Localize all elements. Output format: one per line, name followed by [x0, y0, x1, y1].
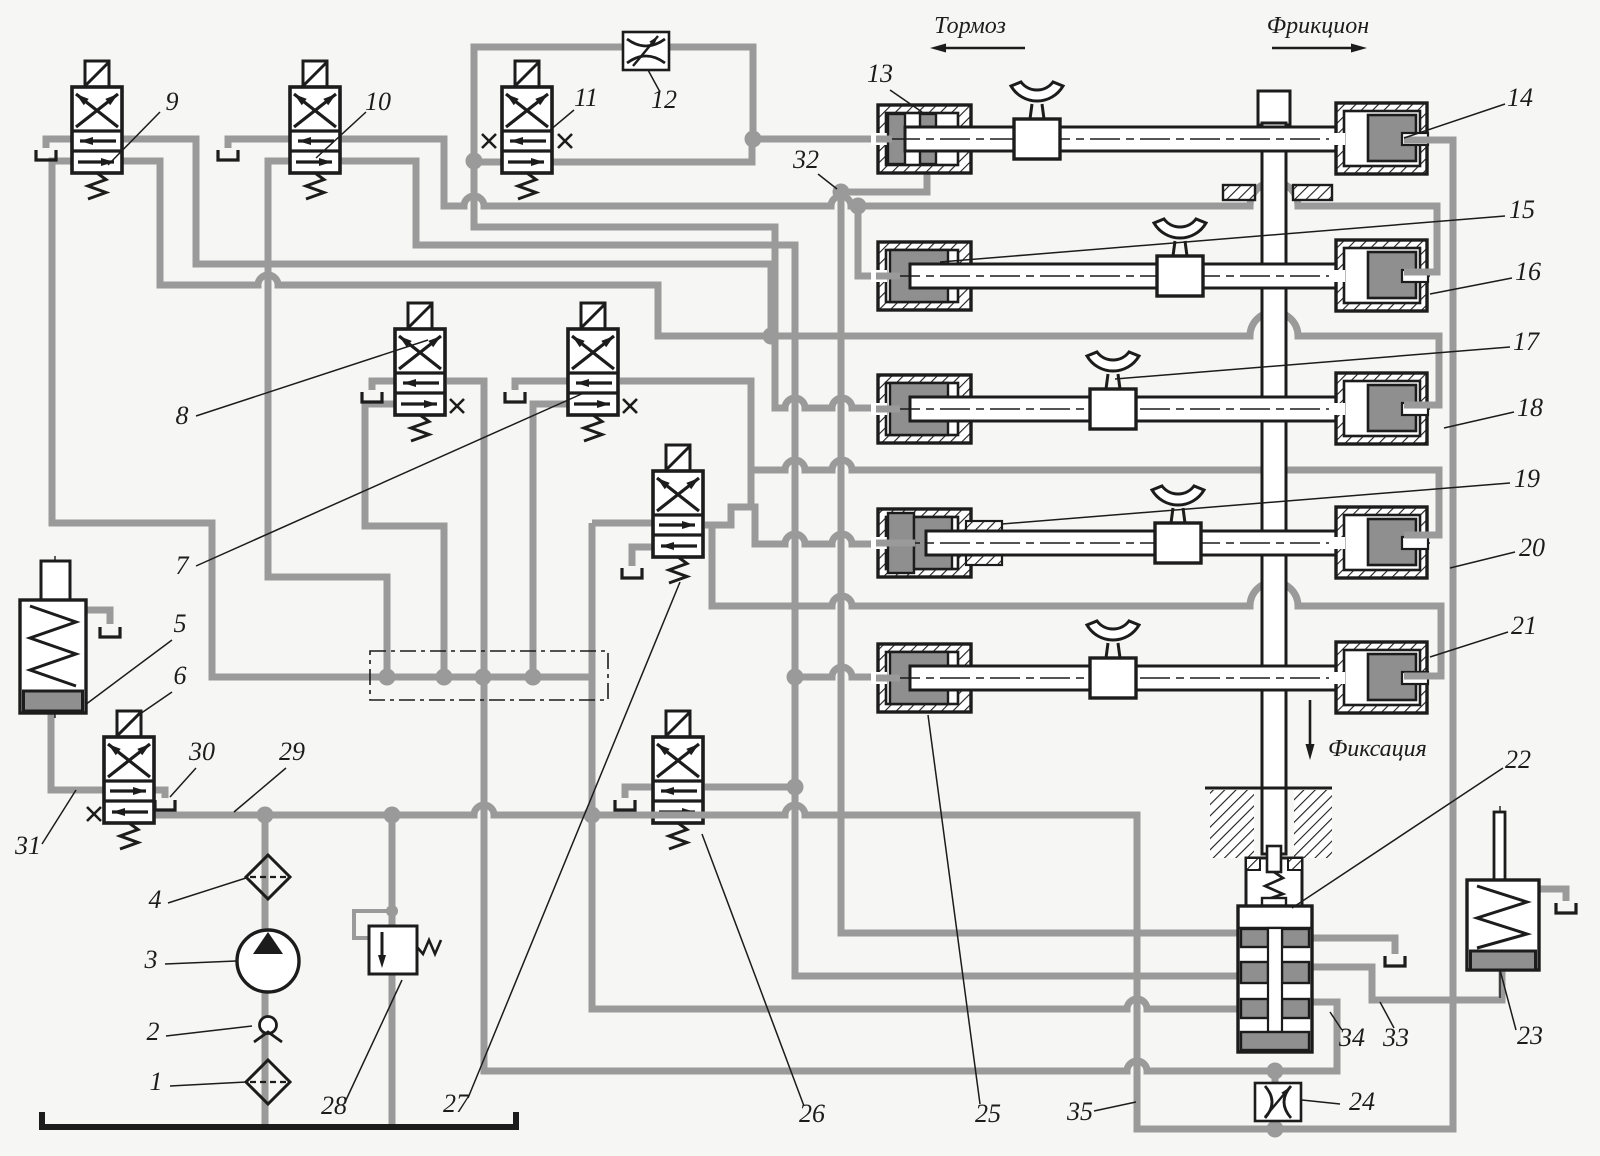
svg-text:22: 22: [1505, 745, 1531, 774]
wire 32 row1 cylinder drain to node 841,192: [841, 171, 927, 192]
svg-text:4: 4: [149, 885, 162, 914]
wire valve10 lower port via x795 down to piston-stack band2: [340, 161, 1240, 976]
junction node at 841,192: [833, 184, 850, 201]
svg-text:3: 3: [144, 945, 158, 974]
svg-text:17: 17: [1513, 327, 1540, 356]
junction node at 771,336: [763, 328, 780, 345]
wire x841 down to line y933 to stack band1 left: [841, 192, 1240, 933]
brake cylinder 15: [871, 242, 971, 310]
tank reservoir: [42, 1112, 516, 1127]
valve 9 solenoid directional valve: [72, 61, 122, 199]
svg-text:9: 9: [166, 87, 179, 116]
valve 8 solenoid directional valve: [395, 303, 464, 441]
tank symbol for valve 9: [36, 150, 56, 160]
filter 1: [246, 1060, 290, 1104]
collector manifold outline: [370, 651, 608, 700]
brake cylinder 25 row5 piston: [890, 652, 948, 704]
label 3: [144, 945, 237, 974]
svg-text:33: 33: [1382, 1023, 1409, 1052]
wire accumulator 23 tank line: [1539, 889, 1566, 901]
label 19: [1002, 464, 1540, 524]
label 18: [1444, 393, 1543, 428]
svg-text:Фрикцион: Фрикцион: [1267, 13, 1370, 39]
brake cylinder 19 piston: [888, 513, 1002, 573]
junction node at 265,815: [257, 807, 274, 824]
wire valve8 right port down x484 to line y1071 to stack band3 right: [447, 381, 1337, 1071]
wire valve10 upper port to long line y206 to row2 right piston: [340, 139, 1437, 272]
accumulator 23: [1467, 806, 1539, 998]
label 13: [867, 59, 922, 112]
filter 4: [246, 855, 290, 899]
brake cylinder 15 rod: [890, 264, 1430, 288]
brake cylinder 13 piston: [888, 114, 936, 164]
wire relief valve branch x392: [389, 815, 396, 1124]
wire stack band1 right to tank: [1308, 938, 1395, 954]
label 23: [1500, 970, 1543, 1050]
wire valve9 upper port to y264 then down x771: [122, 139, 771, 336]
tank symbol for valve 27: [622, 568, 642, 578]
brake cylinder 17: [871, 375, 971, 443]
brake cylinder 15 fork: [1154, 219, 1206, 296]
wire valve27 tank stub: [632, 547, 653, 566]
wire manifold to valve27 left port: [592, 520, 652, 527]
junction node manifold 387,677: [379, 669, 396, 686]
wire valve27 port down x712 to line y606 to row5 right piston: [712, 525, 1441, 676]
wire main line through valve 26: [651, 812, 707, 819]
svg-text:15: 15: [1509, 195, 1535, 224]
wire stub into row2 right piston: [1404, 269, 1437, 276]
friction cylinder 14: [1329, 103, 1428, 174]
label 15: [940, 195, 1535, 262]
svg-text:7: 7: [176, 551, 190, 580]
tank symbol for accumulator 23: [1556, 903, 1576, 913]
label 16: [1430, 257, 1541, 294]
label 17: [1115, 327, 1540, 379]
text Тормоз with arrow: [930, 13, 1025, 53]
label 29: [234, 737, 305, 812]
junction node at 392,911: [386, 905, 398, 917]
brake cylinder 25 row5: [871, 644, 971, 712]
label 32: [792, 145, 837, 189]
junction node at 474,162: [466, 153, 483, 170]
svg-text:1: 1: [150, 1067, 163, 1096]
wire stub into row3 left: [876, 406, 900, 413]
check valve 2: [254, 1017, 282, 1043]
svg-text:25: 25: [975, 1099, 1001, 1128]
label 33: [1380, 1002, 1409, 1052]
support ground row1: [1223, 185, 1332, 200]
tank symbol for piston stack drain: [1385, 956, 1405, 966]
svg-text:31: 31: [14, 831, 41, 860]
wire branch to row4 left feed: [705, 507, 884, 544]
throttle valve 12: [623, 32, 669, 70]
svg-text:5: 5: [174, 609, 187, 638]
svg-text:28: 28: [321, 1091, 347, 1120]
brake cylinder 17 rod: [890, 397, 1430, 421]
wire valve10 tank stub: [228, 139, 290, 148]
wire valve9 drain to collector manifold: [52, 161, 592, 677]
svg-text:21: 21: [1511, 611, 1537, 640]
label 7: [176, 392, 587, 580]
label 24: [1302, 1087, 1375, 1116]
wire row5 left feed corridor: [795, 667, 884, 677]
valve 7 solenoid directional valve: [568, 303, 637, 441]
valve 27 solenoid directional valve: [653, 445, 703, 583]
junction node manifold 483,677: [475, 669, 492, 686]
junction node manifold 533,677: [525, 669, 542, 686]
wire valve9 lower port to long line y336 to row3 right piston: [122, 161, 1439, 405]
label 25: [928, 715, 1001, 1128]
label 31: [14, 790, 76, 860]
junction node at 858,206: [850, 198, 867, 215]
svg-text:14: 14: [1507, 83, 1533, 112]
wire stub into row4 left: [876, 540, 915, 547]
wire stub into row2 left: [876, 273, 900, 280]
brake cylinder 19 rod: [890, 531, 1430, 555]
wire 33 stack band2 right to accumulator 23: [1308, 966, 1502, 1000]
wire accumulator 5 tank line: [84, 610, 110, 624]
svg-text:24: 24: [1349, 1087, 1375, 1116]
label 5: [85, 609, 187, 705]
svg-text:30: 30: [188, 737, 215, 766]
pump 3: [237, 930, 299, 992]
junction node at 795,787: [787, 779, 804, 796]
label 1: [150, 1067, 247, 1096]
wire valve9 tank stub: [46, 139, 72, 148]
svg-text:11: 11: [574, 83, 598, 112]
wire valve6 tank stub: [154, 790, 165, 798]
svg-text:8: 8: [176, 401, 189, 430]
wire throttle 24 branch upper: [1272, 1071, 1279, 1086]
friction cylinder 20: [1329, 507, 1428, 578]
tank symbol for valve 26: [615, 800, 635, 810]
wire valve10 drain to manifold: [268, 161, 387, 677]
svg-text:12: 12: [651, 85, 677, 114]
wire valve8 drain to manifold: [365, 404, 444, 677]
svg-text:2: 2: [147, 1017, 160, 1046]
relief valve 28: [369, 926, 441, 974]
label 30: [170, 737, 215, 797]
svg-text:18: 18: [1517, 393, 1543, 422]
wire valve7 right port via corridor y470 to row4 right piston: [620, 381, 1439, 535]
friction cylinder 18: [1329, 373, 1428, 444]
label 4: [149, 878, 247, 914]
tank symbol for valve 6: [155, 800, 175, 810]
spring housing of lock: [1246, 846, 1302, 906]
wire valve11 bottom left to node 474,162: [474, 159, 502, 166]
central selector shaft: [1258, 91, 1290, 854]
svg-text:35: 35: [1066, 1097, 1093, 1126]
svg-text:16: 16: [1515, 257, 1541, 286]
wire branch down to row2 left feed: [858, 206, 884, 276]
label 22: [1292, 745, 1531, 908]
label 11: [549, 83, 598, 131]
wire valve26 right port to x795: [705, 784, 795, 791]
svg-text:19: 19: [1514, 464, 1540, 493]
brake cylinder 25 row5 fork: [1087, 621, 1139, 698]
svg-text:13: 13: [867, 59, 893, 88]
svg-text:6: 6: [174, 661, 187, 690]
wire main pressure line 29 and right-side loop to row1 right piston: [153, 140, 1453, 1129]
wire valve8 tank stub: [372, 381, 395, 390]
svg-text:Тормоз: Тормоз: [934, 13, 1006, 39]
label 8: [176, 340, 429, 430]
label 20: [1450, 533, 1545, 568]
label 35: [1066, 1097, 1136, 1126]
tank symbol for valve 10: [218, 150, 238, 160]
svg-text:20: 20: [1519, 533, 1545, 562]
friction cylinder 16: [1329, 240, 1428, 311]
accumulator 5: [20, 556, 86, 718]
label 2: [147, 1017, 253, 1046]
label 27: [443, 582, 680, 1118]
junction node at 753,139: [745, 131, 762, 148]
svg-text:27: 27: [443, 1089, 470, 1118]
wire row1 brake feed from node at 753,139: [753, 136, 884, 143]
label 14: [1404, 83, 1533, 138]
svg-text:10: 10: [365, 87, 391, 116]
wire 31 accumulator 5 to valve 6: [51, 713, 104, 790]
wire valve26 tank stub: [625, 787, 653, 798]
stepped piston stack 22: [1238, 906, 1312, 1052]
label 28: [321, 980, 402, 1120]
label 12: [648, 70, 677, 114]
ground hatch at shaft base: [1205, 788, 1332, 858]
junction node at 795,677: [787, 669, 804, 686]
label 10: [316, 87, 391, 158]
wire valve11 bottom right to node: [552, 140, 752, 162]
wire valve11 top loop via throttle 12: [474, 47, 753, 160]
wire stub into row1 left: [876, 136, 892, 143]
brake cylinder 13 fork: [1011, 82, 1063, 159]
label 9: [108, 87, 179, 165]
wire stub into row5 right piston: [1404, 673, 1441, 680]
junction node at 592,815: [584, 807, 601, 824]
wire net valve11-drain to row3 left feed: [474, 161, 884, 408]
wire pump suction/delivery branch x265: [262, 815, 269, 1124]
svg-text:29: 29: [279, 737, 305, 766]
brake cylinder 17 fork: [1087, 352, 1139, 429]
tank symbol for accumulator 5: [100, 627, 120, 637]
brake cylinder 17 piston: [890, 383, 948, 435]
valve 10 solenoid directional valve: [290, 61, 340, 199]
svg-text:34: 34: [1338, 1023, 1365, 1052]
friction cylinder 21: [1329, 642, 1428, 713]
brake cylinder 15 piston: [890, 250, 948, 302]
wire throttle 24 branch lower: [1272, 1118, 1279, 1129]
brake cylinder 13: [871, 105, 971, 173]
text Фрикцион with arrow: [1267, 13, 1370, 53]
junction node at 392,815: [384, 807, 401, 824]
wire stub into row4 right piston: [1404, 532, 1439, 539]
svg-text:32: 32: [792, 145, 819, 174]
label 21: [1430, 611, 1537, 657]
wire stub into row1 right piston: [1404, 137, 1455, 144]
junction node manifold 444,677: [436, 669, 453, 686]
brake cylinder 19 fork: [1152, 486, 1204, 563]
tank symbol for valve 7: [505, 392, 525, 402]
text Фиксация with arrow: [1306, 700, 1427, 762]
label 26: [702, 834, 825, 1128]
wire stub into row3 right piston: [1404, 402, 1439, 409]
wire valve7 drain to manifold: [533, 404, 568, 677]
wire stub into row5 left: [876, 675, 900, 682]
wire relief valve pilot line: [354, 911, 392, 938]
wire from node 592 down to line y1009 to stack band3 left: [592, 523, 1240, 1009]
brake cylinder 13 rod: [890, 127, 1430, 151]
wire link corridor to sub-branch: [748, 470, 755, 507]
brake cylinder 19: [871, 509, 971, 577]
junction node at 1275,1071: [1267, 1063, 1284, 1080]
tank symbol for valve 8: [362, 392, 382, 402]
valve 6 solenoid directional valve: [87, 711, 154, 849]
brake cylinder 25 row5 rod: [890, 666, 1430, 690]
svg-text:23: 23: [1517, 1021, 1543, 1050]
label 34: [1330, 1012, 1365, 1052]
label 6: [140, 661, 187, 714]
junction node at 1275,1129: [1267, 1121, 1284, 1138]
throttle valve 24: [1255, 1083, 1301, 1121]
valve 11 solenoid directional valve: [482, 61, 572, 199]
valve 26 solenoid directional valve: [653, 711, 703, 849]
svg-text:Фиксация: Фиксация: [1328, 736, 1427, 762]
wire valve7 tank stub: [515, 381, 568, 390]
